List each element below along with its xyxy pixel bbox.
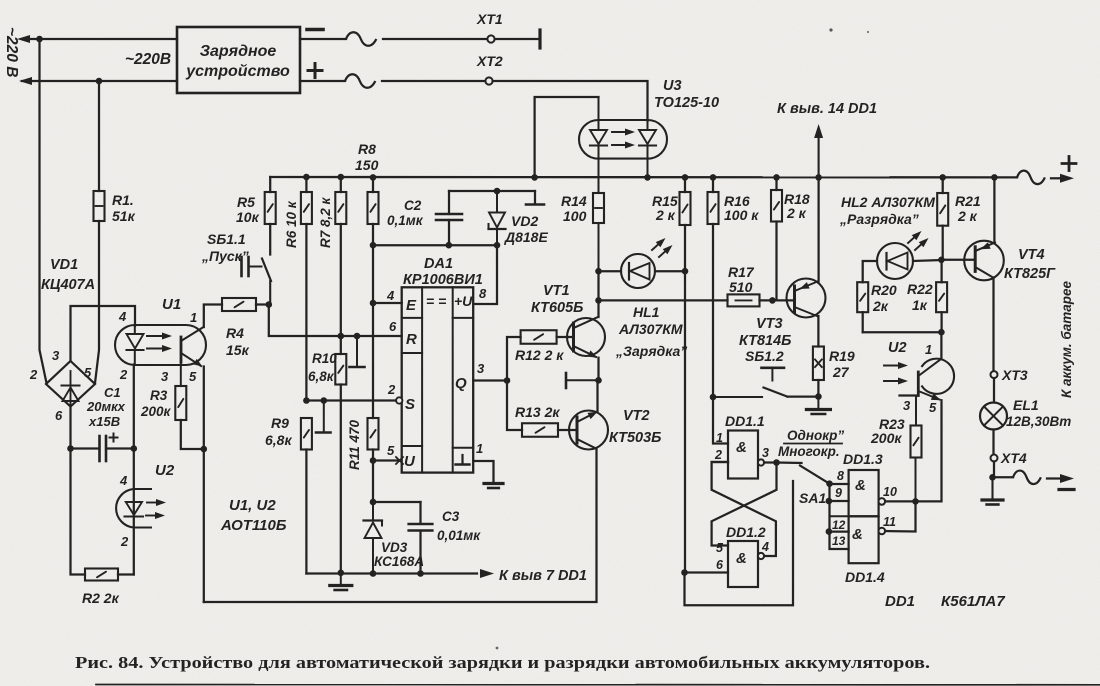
ground at battery minus: [982, 477, 1003, 504]
wire R15 to odnokr contact: [685, 481, 794, 605]
resistor R3: [175, 362, 204, 449]
label R11 470 (rotated): [347, 419, 362, 470]
junction R6/R9 on pin2 rail: [303, 397, 310, 404]
wire R2 to U2 LED cathode: [118, 573, 134, 575]
DD1.3 output wire: [885, 500, 915, 502]
wire VT1 collector node: [597, 271, 599, 317]
junction DA1 pin5 tap: [370, 457, 377, 464]
junction R15 top: [682, 174, 689, 181]
junction R16 top: [710, 174, 717, 181]
transistor VT4 (PNP): [964, 241, 1004, 281]
resistor R13: [507, 381, 577, 437]
DD1.3 pin8 wire: [830, 483, 849, 485]
gate DD1.1 box: [728, 431, 758, 479]
label SA1: [799, 490, 826, 506]
wire VD2 top rail: [449, 190, 535, 192]
DD1.2 ampersand: [736, 550, 747, 567]
DA1 equals marks: [426, 293, 446, 309]
junction DD1.1 out: [773, 459, 780, 466]
wire HL1 right: [655, 270, 685, 272]
IC DA1 box: [402, 287, 474, 472]
junction R16/SB1.2: [710, 394, 717, 401]
chassis stub on pin2 rail: [316, 397, 331, 432]
gate DD1.4 box: [849, 516, 879, 563]
junction pin9: [826, 498, 833, 505]
wire pin5 node down: [372, 461, 374, 503]
lamp EL1: [980, 403, 1007, 430]
label R4 15k: [226, 325, 250, 358]
wire VT3 collector to R19: [817, 316, 819, 347]
wire U2 collector up: [940, 332, 942, 359]
wire XT4 to minus node: [993, 462, 995, 478]
DA1 pin label 4: [386, 288, 395, 303]
junction C1 right: [131, 445, 138, 452]
label Pusk: [201, 248, 249, 264]
DD1.2 output circle: [758, 553, 764, 559]
wire DA1 pin 4: [373, 302, 402, 304]
junction battery minus: [989, 474, 996, 481]
DD1.4 pin label 13: [832, 534, 846, 548]
junction R21 top: [939, 174, 946, 181]
scan speck top: [829, 28, 869, 33]
label Odnokr: [787, 428, 844, 443]
resistor R17: [728, 294, 760, 306]
U1 pin 5: [189, 369, 197, 384]
junction HL1 left: [595, 268, 602, 275]
label R15 2k: [652, 193, 678, 223]
label VD1: [50, 257, 78, 273]
junction node B (U2 collector): [938, 329, 945, 336]
label C3 value: [437, 509, 481, 543]
U1 pin 1: [190, 310, 197, 325]
label 12V 30W: [1006, 414, 1071, 429]
label DA1: [424, 256, 453, 272]
junction R18/VT3 base: [769, 297, 776, 304]
label R20 2k: [871, 282, 897, 314]
junction C2 bottom: [446, 242, 453, 249]
DD1.3 pin label 10: [883, 485, 897, 499]
label VT3: [756, 316, 783, 332]
wire VT1 emitter to junction: [597, 358, 599, 381]
optocoupler U1 body: [115, 325, 206, 365]
optocoupler U3 body: [579, 120, 667, 159]
junction R7 top: [338, 174, 345, 181]
U3 coupling arrows: [612, 129, 635, 149]
DD1.4 pin12 wire: [830, 530, 849, 532]
label U2 (left): [155, 462, 175, 479]
DD1.4 output wire: [885, 501, 915, 531]
wire bottom-left long (U1 emitter to VT2 emitter): [204, 449, 597, 603]
wire R8-vert down through pin4: [372, 245, 374, 303]
wire VD1 top to U1 LED anode: [71, 306, 136, 361]
wire R17 to VT3 base: [760, 299, 795, 301]
label Razryadka: [839, 211, 919, 227]
DA1 cell E: [406, 297, 417, 314]
LED HL1: [621, 254, 655, 288]
label U1,U2 type: [220, 497, 287, 534]
label SB1.2: [745, 348, 784, 364]
junction VD3 top: [370, 499, 377, 506]
break squiggle minus: [1013, 471, 1041, 485]
wire U2 base lead: [900, 394, 919, 396]
label XT3: [1001, 367, 1028, 383]
label U2 (right): [888, 340, 907, 356]
DD1.4 pin label 12: [832, 518, 846, 532]
junction SA1 common: [826, 480, 833, 487]
label K vyv 14 DD1: [777, 101, 877, 117]
label DD1.4: [845, 569, 885, 585]
label AL307KM (HL1): [618, 321, 683, 337]
capacitor C1: [100, 434, 118, 462]
U2 pin 1: [925, 342, 932, 357]
label DD1.1: [725, 413, 765, 429]
resistor R23: [911, 396, 922, 502]
gate DD1.2 box: [728, 541, 758, 587]
label VT4: [1018, 247, 1045, 263]
junction R8 top: [370, 174, 377, 181]
DD1.3 pin9 wire: [830, 500, 849, 502]
DD1.1 pin label 3: [762, 446, 769, 460]
wire U2 emitter down: [916, 400, 942, 501]
resistor R6: [301, 177, 312, 401]
wire SB1.1 node to DA1 pin6 rail: [269, 305, 402, 337]
resistor R2: [85, 569, 118, 581]
plug bar at XT1: [538, 30, 541, 48]
U3 right diode: [639, 121, 656, 177]
resistor R4: [222, 298, 256, 311]
junction R8 bottom: [370, 242, 377, 249]
transistor VT3 (PNP): [787, 279, 826, 318]
wire R20/R22 bottom rail: [863, 331, 942, 333]
label KS168A: [374, 554, 424, 569]
resistor R20: [857, 282, 868, 332]
pushbutton SB1.1: [242, 257, 272, 305]
label D818E: [504, 229, 548, 245]
resistor R7: [335, 177, 346, 336]
junction mains-2 / R1 tap: [96, 78, 103, 85]
zener diode VD3: [364, 502, 383, 574]
caption: [75, 653, 930, 672]
DD1.1 pin label 1: [716, 431, 723, 445]
junction mains-1 / left vertical: [36, 36, 43, 43]
junction R23/outputs: [912, 498, 919, 505]
U1 phototransistor: [181, 327, 204, 369]
main positive bus: [270, 176, 1017, 179]
DA1 pin5 x-mark: [396, 457, 403, 464]
DD1.1 output wire: [764, 461, 776, 463]
diode symbol inside VD1: [62, 371, 80, 404]
ground at DA1 pin1: [484, 484, 503, 489]
wire charger minus output: [300, 38, 346, 40]
wire DA1 pin 1 to ground: [473, 461, 493, 482]
diode bridge VD1 outline: [46, 361, 95, 407]
DA1 cell S: [405, 396, 415, 413]
DD1.4 top edge extension: [830, 515, 849, 517]
resistor R8: [368, 177, 379, 245]
resistor R1: [94, 81, 105, 383]
terminal XT4: [991, 455, 998, 462]
DD1.2 pin label 4: [761, 540, 769, 554]
U1 pin 2: [119, 367, 128, 382]
label R10 6.8k: [308, 351, 337, 384]
DD1.4 ampersand: [852, 526, 863, 543]
wire zener supply rail: [373, 244, 497, 246]
label VT2: [623, 408, 650, 424]
label HL1: [633, 304, 660, 320]
DA1 pin label 8: [479, 286, 487, 301]
arrow to DD1 pin14: [814, 124, 823, 177]
DA1 pin label 6: [389, 319, 397, 334]
DD1.4 pin label 11: [883, 515, 896, 529]
cross-coupling DD1.1-out to DD1.2-in: [712, 463, 777, 546]
capacitor C3: [409, 502, 433, 574]
U2 pin 3: [903, 398, 911, 413]
DD1.3 output circle: [879, 498, 886, 505]
zener diode VD2: [489, 191, 506, 245]
DD1.4 output circle: [879, 528, 886, 535]
label R6 10k (rotated): [284, 200, 299, 248]
bus break squiggle right: [1017, 171, 1045, 185]
bus arrow to battery plus: [1051, 174, 1074, 183]
transistor VT1: [567, 317, 605, 361]
label KTs407A: [41, 277, 95, 293]
capacitor C2: [436, 191, 462, 245]
U2 LED: [125, 502, 144, 517]
break squiggle plus lead: [345, 74, 375, 88]
pin 2 of VD1: [29, 367, 38, 382]
U2 pin 2: [120, 534, 129, 549]
junction DA1 pin4 tap: [370, 300, 377, 307]
label R9 6.8k: [265, 415, 292, 448]
label R5 10k: [236, 194, 260, 225]
junction arrow/VT3 on bus: [815, 174, 822, 181]
label R21 2k: [955, 193, 981, 224]
wire VT4 collector down: [992, 278, 994, 372]
junction U3-left on bus: [531, 174, 538, 181]
label KT825G: [1004, 266, 1056, 282]
DD1.1 output circle: [758, 459, 764, 465]
U1 light arrows: [147, 333, 172, 353]
wire to XT2: [382, 80, 485, 82]
U2 light arrows (right): [884, 362, 908, 385]
polarity minus at box output: [307, 28, 323, 32]
wire to C1: [71, 447, 98, 449]
polarity plus at box output: [308, 64, 322, 78]
junction VT1-collector/R17 rail: [595, 297, 602, 304]
terminal XT2: [485, 77, 492, 84]
cross-coupling DD1.2-out to DD1.1-in: [712, 462, 776, 556]
junction R10/ground-rail: [338, 570, 345, 577]
resistor R22: [936, 260, 947, 332]
label R17 510: [728, 264, 755, 295]
terminal XT3: [991, 371, 998, 378]
label KT814B: [739, 333, 791, 349]
arrow to DD1 pin7: [480, 569, 494, 578]
label C1 value: [86, 385, 126, 429]
chassis stub at VT1/VT2 node: [566, 373, 596, 388]
arrow battery minus: [1047, 474, 1074, 483]
junction Q split: [504, 377, 511, 384]
fraction bar: [784, 443, 842, 445]
label K akkum batareye (rotated): [1059, 280, 1074, 398]
junction VD3 bottom: [370, 570, 377, 577]
HL1 emission arrows: [652, 235, 675, 257]
pin 3 of VD1: [52, 348, 60, 363]
DD1.3 pin label 8: [837, 469, 844, 483]
wire U1 emitter down (long): [203, 367, 205, 603]
label R2 2k: [82, 590, 120, 606]
terminal XT1: [487, 35, 494, 42]
bottom ground rail: [306, 572, 477, 574]
label SB1.1: [207, 231, 246, 247]
label R1 51k: [112, 192, 136, 224]
DD1.1 pin1 wire: [713, 397, 728, 444]
DA1 cell U: [404, 453, 416, 470]
label plus (battery): [1062, 157, 1076, 171]
DD1.1 pin2 wire: [712, 461, 728, 463]
junction VD2 bottom: [494, 242, 501, 249]
resistor R5: [265, 177, 276, 255]
U1 LED: [127, 326, 144, 365]
label R13 2k: [515, 404, 560, 420]
wire U1 collector to R4: [204, 305, 222, 328]
label U1: [162, 296, 181, 313]
wire to minus squiggle: [993, 476, 1014, 478]
label DD1 K561LA7: [885, 593, 1005, 610]
junction R3/emitter: [201, 446, 208, 453]
wire charger plus output: [300, 80, 345, 82]
junction VT4 on bus: [991, 174, 998, 181]
DD1.2 pin label 5: [716, 541, 724, 555]
U2 pin 4: [119, 473, 128, 488]
SA1 vertical to gate inputs: [830, 484, 849, 549]
wire to XT1: [383, 38, 487, 40]
label DD1.3: [843, 451, 883, 467]
wire node A to VT4 base: [941, 259, 975, 261]
resistor R16: [708, 177, 719, 397]
scan speck mid: [496, 647, 499, 650]
label KT503B: [609, 430, 661, 446]
pin 6 of VD1: [55, 408, 63, 423]
wire C1 to U1 cathode line: [108, 447, 134, 449]
U3 left diode: [590, 97, 607, 158]
junction U3-right on bus: [644, 174, 651, 181]
label R19 27: [829, 348, 855, 380]
wire R8-vert pin4 to R11: [372, 303, 374, 418]
chassis stub at VD2 node: [526, 191, 544, 205]
wire DA1 pin 5: [373, 459, 399, 461]
resistor R14: [593, 158, 604, 271]
wire mains line 1 (to charger box) with arrow: [17, 35, 177, 43]
chassis stub on pin6 rail: [350, 333, 365, 367]
pushbutton SB1.2: [713, 368, 787, 397]
junction C1 left: [67, 445, 74, 452]
junction VD2 top: [494, 188, 501, 195]
LED HL2: [877, 243, 913, 279]
net label ~220 V (rotated, left edge): [3, 27, 20, 77]
label XT2: [476, 53, 503, 69]
wire XT3 to EL1: [993, 378, 995, 402]
wire bridge node down to R2: [71, 449, 86, 575]
optocoupler U2 LED-half body: [116, 489, 152, 528]
junction VT1/VT2: [595, 377, 602, 384]
label KT605B: [531, 300, 583, 316]
break squiggle minus lead: [346, 32, 376, 46]
wire HL2 left to R20: [863, 261, 877, 282]
resistor R12: [507, 330, 574, 380]
DA1 pin label 3: [477, 361, 485, 376]
label VD3: [381, 540, 408, 555]
switch SA1 lever: [800, 466, 828, 483]
gate DD1.3 box: [849, 470, 879, 516]
label KR1006VI1: [403, 272, 483, 288]
wire DA1 pin2 trigger rail: [306, 399, 396, 401]
junction R15/pin6: [681, 569, 688, 576]
U2 pin 5: [929, 400, 937, 415]
U1 pin 3: [161, 369, 169, 384]
wire y502 branch: [373, 501, 421, 503]
HL2 emission arrows: [908, 228, 931, 250]
resistor R19: [813, 347, 824, 397]
wire DA1 pin 3 (Q): [473, 379, 507, 381]
label TO125-10: [654, 95, 719, 111]
resistor R15: [680, 177, 691, 572]
optocoupler U2 phototransistor body: [922, 359, 955, 394]
junction node A (VT4 base): [938, 257, 945, 264]
label VD2: [511, 213, 538, 229]
wire left vertical down to bridge VD1: [40, 39, 47, 383]
scan noise overlay: [0, 0, 1, 1]
label ~220В at box input: [125, 51, 171, 68]
pin 5 of VD1: [84, 365, 92, 380]
DD1.1 pin label 2: [714, 448, 722, 462]
wire XT2 to U3 right branch: [493, 81, 648, 121]
label VT1: [543, 283, 570, 299]
DA1 pin label 2: [387, 382, 396, 397]
label R16 100k: [724, 193, 759, 223]
DD1.2 pin label 6: [716, 558, 724, 572]
label Mnogokr: [778, 444, 840, 459]
charger unit box (Зарядное устройство): [177, 27, 300, 93]
U1 pin 4: [118, 309, 127, 324]
wire HL1 left: [599, 270, 622, 272]
label XT1: [476, 11, 503, 27]
label R23 200k: [870, 416, 905, 446]
wire VT4 emitter to bus: [993, 177, 995, 242]
U2 light arrows: [146, 499, 166, 519]
U2 phototransistor: [918, 359, 942, 403]
wire U2 LED vertical: [133, 449, 135, 575]
junction R6 top: [303, 174, 310, 181]
junction R18 top: [773, 174, 780, 181]
wire EL1 to XT4: [992, 430, 994, 455]
label R22 1k: [907, 281, 933, 313]
wire U3 left branch: [535, 97, 599, 177]
label EL1: [1013, 397, 1039, 413]
junction R7/R10 on pin6 rail: [338, 333, 345, 340]
junction pin12: [826, 528, 833, 535]
resistor R10: [335, 336, 346, 573]
label R8 150: [355, 141, 379, 173]
label U3: [663, 78, 682, 94]
DA1 pin2 inversion circle: [396, 397, 402, 403]
wire R19 node to SB1.2: [788, 395, 819, 397]
ground symbol mid: [330, 574, 352, 591]
label XT4: [1000, 450, 1027, 466]
label R12 2k: [515, 347, 564, 363]
label C2 value: [387, 198, 424, 228]
resistor R18: [771, 177, 782, 300]
